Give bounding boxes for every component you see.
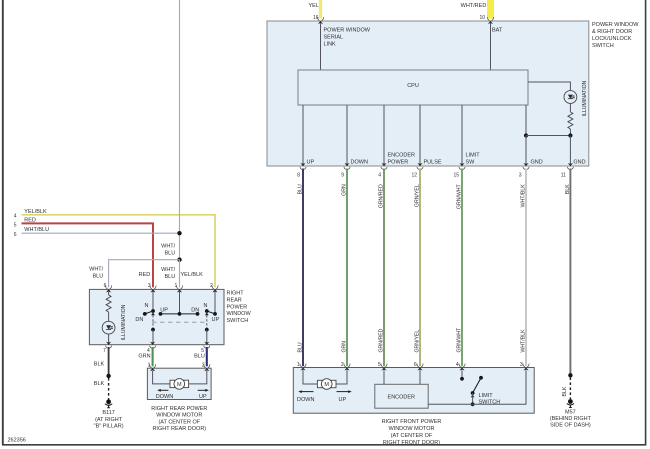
svg-text:SIDE OF DASH): SIDE OF DASH)	[550, 423, 591, 429]
wire WHT/BLU to rear switch pin 6	[89, 260, 179, 288]
junction	[177, 231, 181, 235]
junction	[524, 133, 528, 137]
pin 6 (front motor)	[414, 362, 423, 370]
pin 2 (rear switch)	[210, 283, 218, 293]
wire RED (left pin 5 to rear switch pin 3)	[22, 217, 154, 287]
wire BLK (pin 11 to ground M57)	[565, 169, 571, 376]
svg-text:(AT RIGHT: (AT RIGHT	[95, 417, 123, 423]
svg-text:GRN/RED: GRN/RED	[379, 328, 385, 352]
svg-text:2: 2	[210, 283, 213, 289]
svg-text:GRN/YEL: GRN/YEL	[415, 184, 421, 207]
pin 11	[561, 163, 574, 179]
wire DOWN internal	[347, 105, 368, 166]
label LIMIT SWITCH	[479, 393, 501, 406]
junction	[568, 133, 572, 137]
pin 5 (rear switch)	[201, 342, 210, 354]
wire armature left (rear motor)	[153, 371, 170, 384]
wire YEL/BLK (left pin 4 to rear switch pin 2)	[22, 209, 216, 288]
wire BLK dashed to ground M57	[562, 377, 570, 399]
wire pin 4 to limit switch contact	[460, 370, 464, 380]
svg-text:3: 3	[148, 283, 151, 289]
svg-text:ENCODER: ENCODER	[388, 153, 416, 159]
svg-text:GRN/WHT: GRN/WHT	[457, 183, 463, 209]
svg-text:POWER: POWER	[227, 304, 248, 310]
mechanical link (dashed)	[152, 321, 208, 323]
svg-text:6: 6	[104, 283, 107, 289]
wire ENCODER POWER internal	[384, 105, 415, 166]
svg-text:RIGHT REAR DOOR): RIGHT REAR DOOR)	[152, 426, 206, 432]
svg-text:1: 1	[297, 362, 300, 368]
svg-text:SWITCH: SWITCH	[592, 43, 614, 49]
wire pin 5 to encoder	[383, 370, 385, 384]
label RIGHT REAR POWER WINDOW SWITCH	[227, 291, 252, 324]
wire pin 6 to encoder	[419, 370, 421, 384]
svg-text:BAT: BAT	[492, 28, 503, 34]
contact bar UP/DN (rear switch)	[159, 292, 200, 316]
LED illumination (rear switch)	[102, 321, 115, 334]
svg-text:PULSE: PULSE	[424, 160, 442, 166]
svg-text:WINDOW: WINDOW	[227, 311, 252, 317]
arrow UP (rear motor)	[198, 389, 209, 400]
label WHT/BLU (mid segment)	[161, 244, 176, 257]
svg-text:WINDOW MOTOR: WINDOW MOTOR	[388, 426, 434, 432]
pin 10	[479, 15, 493, 24]
wire CPU to illumination LED	[528, 82, 570, 90]
pin 1 (rear switch)	[175, 283, 183, 293]
pin 3 (rear switch)	[148, 283, 156, 293]
svg-text:9: 9	[341, 173, 344, 179]
pin 2 (rear motor)	[202, 363, 210, 372]
svg-text:BLU: BLU	[164, 250, 175, 256]
arrow DOWN (front motor)	[297, 390, 314, 403]
pin 16	[313, 15, 324, 24]
svg-text:POWER WINDOW: POWER WINDOW	[592, 22, 639, 28]
svg-text:M57: M57	[565, 410, 576, 416]
svg-text:WHT/RED: WHT/RED	[461, 3, 487, 9]
wire armature left (front motor)	[303, 370, 317, 384]
svg-text:RED: RED	[24, 217, 36, 223]
wire PULSE internal	[420, 105, 442, 166]
svg-text:BLU: BLU	[194, 354, 205, 360]
wire GRN/RED (pin 4 to front motor pin 5)	[379, 169, 385, 367]
svg-text:LINK: LINK	[324, 42, 337, 48]
svg-text:2: 2	[202, 363, 205, 369]
switch lever left DN (rear switch)	[135, 292, 155, 323]
svg-text:LIMIT: LIMIT	[479, 393, 494, 399]
svg-text:RIGHT FRONT POWER: RIGHT FRONT POWER	[382, 419, 442, 425]
svg-text:POWER: POWER	[388, 160, 409, 166]
rear switch S1: right rear power window switch	[89, 289, 224, 344]
svg-text:WHT/BLK: WHT/BLK	[520, 184, 526, 208]
pin 4 (front motor)	[456, 362, 465, 370]
svg-text:6: 6	[414, 362, 417, 368]
wire junction to junction	[526, 135, 570, 137]
pin 4 (rear switch)	[147, 342, 156, 354]
svg-text:GND: GND	[573, 160, 585, 166]
label M57 (BEHIND RIGHT SIDE OF DASH)	[550, 410, 592, 429]
svg-text:UP: UP	[307, 160, 315, 166]
svg-text:BLU: BLU	[92, 273, 103, 279]
label RIGHT REAR POWER WINDOW MOTOR (AT CENTER OF RIGHT REAR DOOR)	[151, 406, 207, 432]
wire armature right (front motor)	[336, 370, 347, 384]
svg-text:BLK: BLK	[565, 184, 571, 194]
svg-text:(AT CENTER OF: (AT CENTER OF	[391, 433, 433, 439]
wire LIMIT SW internal	[462, 105, 480, 166]
wire WHT/BLU (left pin 6 horizontal)	[22, 227, 180, 233]
svg-text:3: 3	[520, 362, 523, 368]
arrow DOWN (rear motor)	[156, 389, 173, 400]
svg-text:YEL/BLK: YEL/BLK	[24, 209, 47, 215]
motor M (rear)	[170, 379, 189, 390]
ground M57	[567, 399, 574, 407]
svg-text:GRN: GRN	[138, 354, 150, 360]
resistor illumination (switch assembly)	[568, 104, 573, 136]
switch assembly U1: power window and right door lock/unlock switch	[267, 21, 589, 166]
svg-text:BLU: BLU	[298, 342, 304, 352]
junction (BLK to M57)	[568, 373, 572, 377]
pin 1 (front motor)	[297, 362, 306, 370]
svg-text:LIMIT: LIMIT	[466, 153, 481, 159]
label POWER WINDOW SERIAL LINK	[324, 28, 371, 48]
resistor illumination (rear switch)	[106, 292, 111, 321]
pin 2 (front motor)	[341, 362, 350, 370]
svg-text:YEL: YEL	[309, 3, 319, 9]
svg-text:1: 1	[148, 363, 151, 369]
wire BLK to B117	[94, 347, 111, 400]
svg-text:RIGHT: RIGHT	[227, 291, 245, 297]
svg-text:N: N	[145, 303, 149, 309]
svg-text:ILLUMINATION: ILLUMINATION	[582, 80, 588, 116]
svg-text:10: 10	[479, 15, 485, 21]
limit switch	[471, 376, 483, 406]
wire LED to pin 7	[108, 334, 110, 344]
wire GND internal (pin 11)	[570, 136, 585, 167]
svg-text:UP: UP	[339, 397, 347, 403]
svg-text:ILLUMINATION: ILLUMINATION	[121, 304, 127, 340]
wire common right to pin 5 (rear switch)	[205, 313, 209, 345]
wire BLU (pin 8 to front motor pin 1)	[298, 169, 304, 367]
pin 3 (front motor)	[520, 362, 529, 370]
pin 15	[453, 163, 465, 179]
wire WHT/RED (hot) into pin 10	[487, 0, 494, 19]
label RIGHT FRONT POWER WINDOW MOTOR (AT CENTER OF RIGHT FRONT DOOR)	[382, 419, 442, 446]
svg-text:WHT/: WHT/	[161, 244, 176, 250]
svg-text:POWER WINDOW: POWER WINDOW	[324, 28, 371, 34]
svg-text:11: 11	[561, 173, 566, 179]
svg-text:DOWN: DOWN	[351, 160, 368, 166]
wire GRN/WHT (pin 15 to front motor pin 4)	[457, 169, 463, 367]
svg-text:ENCODER: ENCODER	[388, 394, 416, 400]
svg-text:GRN/WHT: GRN/WHT	[457, 327, 463, 353]
switch lever right UP (rear switch)	[204, 292, 220, 323]
svg-text:BLK: BLK	[562, 386, 568, 396]
pin 12	[411, 163, 423, 179]
LED illumination (switch assembly)	[564, 91, 577, 104]
pin 7 (rear switch)	[103, 342, 112, 354]
svg-text:BLU: BLU	[164, 274, 175, 280]
label POWER WINDOW & RIGHT DOOR LOCK/UNLOCK SWITCH	[592, 22, 639, 49]
svg-text:DOWN: DOWN	[297, 397, 314, 403]
svg-text:262356: 262356	[8, 438, 26, 444]
svg-text:BLK: BLK	[94, 361, 105, 367]
svg-text:GND: GND	[531, 160, 543, 166]
svg-text:16: 16	[313, 15, 319, 21]
wire GRN/YEL (pin 12 to front motor pin 6)	[415, 169, 421, 367]
pin 1 (rear motor)	[148, 363, 156, 372]
wire YEL (hot) into pin 16	[319, 0, 322, 19]
wire common left to pin 4 (rear switch)	[151, 313, 155, 345]
svg-text:BLU: BLU	[298, 184, 304, 194]
svg-text:2: 2	[341, 362, 344, 368]
wire GRN (pin 9 to front motor pin 2)	[342, 169, 348, 367]
svg-text:UP: UP	[160, 308, 168, 314]
svg-text:8: 8	[297, 173, 300, 179]
svg-text:WHT/: WHT/	[161, 267, 176, 273]
svg-text:1: 1	[175, 283, 178, 289]
svg-text:SERIAL: SERIAL	[324, 35, 344, 41]
svg-text:WHT/: WHT/	[89, 267, 104, 273]
wire WHT/BLK (pin 3 to front motor pin 3)	[520, 169, 526, 367]
wire BLU (rear switch pin 5 to motor pin 2)	[194, 347, 207, 366]
pin 9	[341, 163, 350, 179]
wire armature right (rear motor)	[189, 371, 207, 384]
svg-text:6: 6	[14, 232, 17, 238]
wire UP internal	[303, 105, 314, 166]
pin 3	[519, 163, 529, 179]
rear motor box: right rear power window motor	[147, 368, 211, 399]
svg-text:5: 5	[14, 222, 17, 228]
svg-text:LOCK/UNLOCK: LOCK/UNLOCK	[592, 36, 632, 42]
wire WHT/BLU vertical from top	[179, 0, 181, 260]
ground B117	[105, 399, 112, 407]
svg-text:3: 3	[519, 173, 522, 179]
svg-text:UP: UP	[199, 394, 207, 400]
wire ground bus (encoder to pin 3)	[428, 370, 526, 404]
svg-text:7: 7	[103, 348, 106, 354]
label B117 (AT RIGHT "B" PILLAR)	[94, 410, 124, 429]
svg-text:12: 12	[411, 173, 417, 179]
svg-text:"B" PILLAR): "B" PILLAR)	[94, 424, 124, 430]
front motor box: right front power window motor	[293, 368, 534, 414]
svg-text:15: 15	[453, 173, 459, 179]
pin 6 (rear switch)	[104, 283, 112, 293]
svg-text:YEL/BLK: YEL/BLK	[181, 272, 204, 278]
pin 8	[297, 163, 306, 179]
svg-text:N: N	[204, 303, 208, 309]
svg-text:(BEHIND RIGHT: (BEHIND RIGHT	[550, 416, 592, 422]
wire GRN (rear switch pin 4 to motor pin 1)	[138, 347, 152, 366]
svg-text:GRN: GRN	[342, 184, 348, 196]
svg-text:WINDOW MOTOR: WINDOW MOTOR	[156, 413, 202, 419]
encoder	[375, 384, 428, 408]
svg-text:(AT CENTER OF: (AT CENTER OF	[158, 419, 200, 425]
svg-text:RIGHT FRONT DOOR): RIGHT FRONT DOOR)	[383, 440, 440, 446]
junction	[177, 258, 181, 262]
svg-text:SWITCH: SWITCH	[479, 400, 501, 406]
arrow UP (front motor)	[337, 390, 352, 403]
wire GND internal (pin 3)	[526, 136, 543, 167]
svg-text:4: 4	[456, 362, 459, 368]
svg-text:4: 4	[14, 214, 17, 220]
svg-text:4: 4	[378, 173, 381, 179]
svg-text:GRN/YEL: GRN/YEL	[415, 330, 421, 353]
svg-text:RIGHT REAR POWER: RIGHT REAR POWER	[151, 406, 207, 412]
svg-text:DOWN: DOWN	[156, 394, 173, 400]
svg-text:GRN/RED: GRN/RED	[379, 184, 385, 208]
svg-text:BLK: BLK	[94, 381, 105, 387]
svg-text:B117: B117	[102, 410, 114, 416]
CPU	[298, 70, 528, 105]
wire pin 10 to CPU	[490, 24, 492, 71]
svg-text:DN: DN	[191, 308, 199, 314]
svg-text:UP: UP	[212, 317, 220, 323]
svg-text:5: 5	[378, 362, 381, 368]
svg-text:SWITCH: SWITCH	[227, 318, 249, 324]
svg-text:WHT/BLK: WHT/BLK	[520, 329, 526, 353]
svg-text:GRN: GRN	[342, 341, 348, 353]
svg-text:DN: DN	[135, 317, 143, 323]
pin 4	[378, 163, 387, 179]
pin 5 (front motor)	[378, 362, 387, 370]
svg-text:& RIGHT DOOR: & RIGHT DOOR	[592, 29, 632, 35]
svg-text:RED: RED	[139, 272, 151, 278]
svg-text:SW: SW	[466, 160, 476, 166]
wire WHT/BLU to rear switch pin 1	[161, 260, 179, 288]
wire pin 16 to CPU	[320, 24, 322, 71]
motor M1 (front)	[317, 379, 336, 390]
svg-text:WHT/BLU: WHT/BLU	[24, 227, 49, 233]
svg-text:REAR: REAR	[227, 298, 242, 304]
wire CPU to GND junction	[525, 105, 527, 136]
svg-text:CPU: CPU	[407, 83, 419, 89]
